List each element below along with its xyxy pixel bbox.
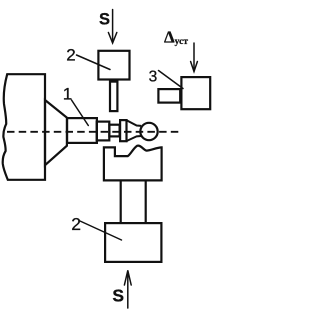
svg-text:S: S: [112, 286, 124, 306]
leader line for upper label 2: [77, 55, 111, 70]
dashed centerline: [7, 131, 181, 133]
feed arrow S top: open arrowhead: [108, 33, 116, 44]
setup-error arrow: open arrowhead: [191, 62, 198, 72]
upper cutting tool 2: head box: [98, 51, 129, 80]
svg-text:2: 2: [66, 45, 75, 64]
svg-text:1: 1: [63, 85, 72, 104]
spindle nose cone: [45, 100, 67, 165]
leader line for label 1: [72, 100, 89, 126]
feed arrow S bottom: open arrowhead: [124, 271, 131, 286]
svg-text:S: S: [99, 11, 110, 29]
ball end: [140, 123, 157, 140]
workpiece step 3: [120, 120, 126, 141]
lower tool 2: body box: [105, 223, 161, 262]
measuring head 3: side block: [158, 89, 180, 103]
feed arrow S bottom: shaft: [127, 271, 129, 308]
lower fixture block with notched wavy top: [104, 146, 162, 181]
leader line for lower label 2: [80, 221, 122, 240]
svg-text:3: 3: [149, 68, 158, 85]
workpiece narrow connector: [109, 125, 119, 137]
workpiece step 2: [97, 122, 110, 141]
measuring head 3: main box: [181, 77, 210, 109]
svg-text:Δуст: Δуст: [164, 28, 188, 48]
fixture stem left edge: [120, 182, 122, 223]
fixture stem right edge: [145, 182, 147, 223]
workpiece cylinder (large step): [67, 118, 97, 143]
setup-error arrow: shaft: [193, 43, 195, 71]
upper cutting tool 2: shank: [110, 82, 117, 112]
chuck body (spindle block with wavy break-line left edge): [3, 74, 45, 180]
svg-text:2: 2: [71, 214, 81, 234]
tapered neck to ball: [127, 120, 140, 125]
feed arrow S top: shaft: [112, 10, 114, 43]
leader line for label 3: [159, 71, 184, 89]
